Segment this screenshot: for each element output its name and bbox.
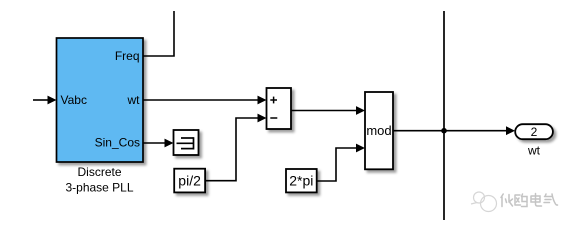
char 3 bbox=[531, 194, 542, 207]
arrowhead into sum minus bbox=[258, 114, 267, 123]
svg-text:mod: mod bbox=[366, 123, 391, 138]
wire wt to sum bbox=[143, 99, 258, 101]
arrowhead into mod input 2 bbox=[356, 144, 365, 153]
char 1 bbox=[501, 194, 513, 207]
arrowhead into Vabc bbox=[48, 96, 57, 105]
constant block 2*pi bbox=[286, 169, 317, 192]
svg-text:2: 2 bbox=[531, 125, 538, 139]
wire sum to mod bbox=[291, 110, 357, 112]
arrowhead into sum plus bbox=[258, 96, 267, 105]
plus sign bbox=[270, 97, 277, 104]
svg-text:pi/2: pi/2 bbox=[178, 173, 201, 189]
svg-text:2*pi: 2*pi bbox=[289, 173, 313, 189]
svg-text:3-phase PLL: 3-phase PLL bbox=[65, 181, 133, 195]
block Discrete 3-phase PLL bbox=[57, 38, 144, 162]
svg-text:Discrete: Discrete bbox=[77, 165, 121, 179]
terminator block bbox=[174, 130, 199, 155]
wire Sin_Cos to terminator bbox=[143, 142, 166, 144]
wire 2*pi to mod bbox=[317, 148, 357, 181]
arrowhead into outport bbox=[506, 126, 515, 135]
arrowhead into terminator bbox=[165, 139, 174, 148]
svg-text:Vabc: Vabc bbox=[61, 93, 87, 107]
long vertical wire bbox=[443, 11, 445, 220]
svg-text:wt: wt bbox=[527, 144, 541, 158]
outport 2 oval bbox=[515, 124, 553, 139]
junction dot bbox=[441, 128, 447, 134]
char 4 bbox=[544, 194, 558, 205]
watermark logo bird bbox=[471, 192, 497, 212]
math function block mod bbox=[365, 92, 393, 169]
watermark text (vector strokes, reads 似鸥电气) bbox=[501, 194, 558, 207]
terminator icon bbox=[177, 137, 194, 149]
svg-text:Sin_Cos: Sin_Cos bbox=[95, 136, 140, 150]
svg-text:wt: wt bbox=[127, 93, 141, 107]
minus sign bbox=[270, 117, 277, 119]
wire pi/2 to sum minus bbox=[205, 118, 258, 181]
char 2 bbox=[515, 194, 527, 207]
wire mod to outport bbox=[393, 130, 507, 132]
constant block pi/2 bbox=[174, 169, 205, 193]
svg-text:Freq: Freq bbox=[115, 49, 140, 63]
arrowhead into mod input 1 bbox=[356, 106, 365, 115]
wire Freq (up and off) bbox=[143, 11, 174, 56]
sum block bbox=[267, 88, 292, 129]
wire input into Vabc bbox=[33, 99, 49, 101]
